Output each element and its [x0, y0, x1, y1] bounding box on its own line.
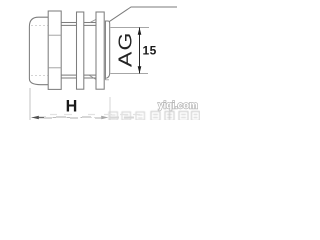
neck 2 lines	[84, 23, 96, 79]
arrow up	[138, 28, 142, 35]
extension line right (dim H)	[109, 97, 111, 120]
svg-text:15: 15	[143, 44, 157, 58]
extension line bottom (dim 15)	[110, 72, 148, 74]
hidden bore line bottom	[31, 74, 48, 76]
dimension line H	[32, 117, 109, 119]
sealing ring 2	[77, 12, 84, 89]
leader line to thread designation	[109, 7, 177, 22]
neck 1 lines	[61, 23, 76, 79]
threaded stub	[105, 21, 109, 80]
thread lead-in diagonal top	[90, 19, 96, 22]
flange internal line bottom	[48, 67, 61, 69]
hidden bore line top	[31, 24, 48, 26]
sealing ring 3	[96, 12, 104, 89]
svg-text:AG: AG	[116, 31, 136, 67]
arrow left (dim H)	[32, 116, 39, 120]
thread lead-in diagonal bottom	[89, 75, 96, 79]
extension line left (dim H)	[29, 88, 31, 120]
extension line top (dim 15)	[110, 26, 149, 28]
watermark smudge bottom left	[44, 115, 140, 119]
flange (locknut)	[48, 11, 61, 89]
gland body (dome nut, rounded left end)	[29, 17, 48, 85]
arrow right (dim H)	[101, 116, 108, 120]
dimension line 15	[139, 28, 141, 74]
svg-text:H: H	[66, 98, 78, 116]
arrow down	[138, 66, 142, 73]
watermark chinese glyph fragments bottom right	[109, 112, 200, 121]
flange internal line top	[48, 34, 61, 36]
svg-text:yiqi.com: yiqi.com	[158, 101, 198, 112]
